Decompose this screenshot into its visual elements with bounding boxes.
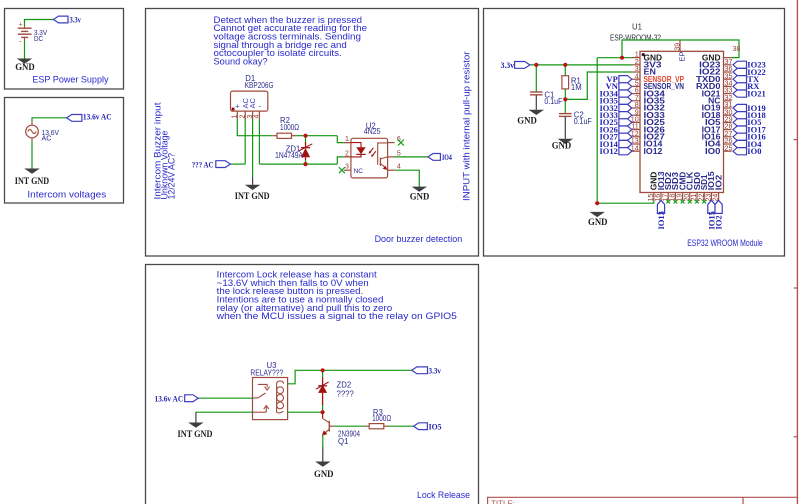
svg-text:IO4: IO4 [442,153,452,162]
svg-text:Lock Release: Lock Release [417,490,470,500]
svg-text:3.3v: 3.3v [501,61,515,70]
svg-text:4N25: 4N25 [364,127,382,136]
svg-text:3.3v: 3.3v [429,366,442,375]
svg-text:-: - [19,37,22,46]
svg-text:GND: GND [15,62,35,72]
svg-text:-: - [258,101,261,110]
svg-text:NC: NC [354,168,364,175]
svg-text:18: 18 [670,194,677,202]
svg-text:GND: GND [410,191,430,201]
svg-text:??? AC: ??? AC [192,160,214,169]
svg-text:AC: AC [248,97,257,108]
svg-text:39: 39 [675,43,682,51]
svg-text:IO12: IO12 [599,146,617,156]
svg-text:KBP206G: KBP206G [245,81,274,90]
svg-text:ESP Power Supply: ESP Power Supply [32,75,108,85]
svg-text:IO0: IO0 [705,147,721,156]
svg-text:19: 19 [677,194,684,202]
svg-text:38: 38 [733,46,741,53]
svg-text:Door buzzer detection: Door buzzer detection [375,234,463,244]
svg-text:25: 25 [725,143,733,152]
svg-text:0.1uF: 0.1uF [574,117,592,126]
svg-text:0.1uF: 0.1uF [544,97,562,106]
svg-text:IO12: IO12 [644,147,664,156]
svg-text:IO0: IO0 [747,146,761,156]
svg-text:13.6v AC: 13.6v AC [155,395,184,404]
svg-text:IO13: IO13 [656,211,666,229]
svg-text:when the MCU issues a signal t: when the MCU issues a signal to the rela… [216,311,457,321]
svg-text:1N4749A: 1N4749A [275,151,304,160]
svg-text:4: 4 [397,164,401,171]
svg-text:GND: GND [552,141,572,151]
svg-text:IO5: IO5 [429,422,442,431]
svg-text:17: 17 [662,194,669,202]
svg-text:IO2: IO2 [714,215,724,229]
svg-text:ZD2: ZD2 [337,381,352,390]
svg-text:3: 3 [345,164,349,171]
svg-text:4: 4 [254,115,261,119]
svg-text:+: + [235,101,240,110]
svg-text:3.3v: 3.3v [70,16,81,25]
svg-text:TITLE:: TITLE: [491,500,515,504]
svg-text:12/24V AC?: 12/24V AC? [167,153,177,200]
svg-text:1: 1 [345,136,349,143]
svg-text:5: 5 [397,150,401,157]
svg-text:GND: GND [314,469,334,479]
svg-text:1000Ω: 1000Ω [372,414,391,423]
svg-text:21: 21 [691,194,698,202]
svg-text:1: 1 [232,115,239,119]
svg-text:AC: AC [42,134,52,143]
svg-text:ESP32 WROOM Module: ESP32 WROOM Module [687,238,763,248]
svg-text:U1: U1 [632,23,642,32]
svg-text:2: 2 [345,150,349,157]
svg-text:13.6v AC: 13.6v AC [83,112,112,121]
svg-text:EP: EP [678,51,687,61]
svg-text:2: 2 [239,115,246,119]
svg-text:Sound okay?: Sound okay? [214,56,268,66]
svg-text:IO2: IO2 [714,174,723,190]
svg-text:RELAY???: RELAY??? [250,369,283,378]
svg-text:20: 20 [684,194,691,202]
svg-text:INT GND: INT GND [178,429,213,439]
svg-text:INPUT with internal pull-up re: INPUT with internal pull-up resistor [462,52,472,202]
svg-text:15: 15 [648,194,655,202]
svg-text:GND: GND [588,217,608,227]
svg-text:1M: 1M [571,83,582,92]
svg-text:INT GND: INT GND [235,191,270,201]
svg-text:INT GND: INT GND [15,176,50,186]
svg-text:ESP-WROOM-32: ESP-WROOM-32 [610,33,661,42]
svg-text:IO21: IO21 [747,88,765,98]
svg-text:1000Ω: 1000Ω [280,123,299,132]
svg-text:GND: GND [517,115,537,125]
svg-text:????: ???? [337,389,355,398]
svg-text:DC: DC [34,34,43,43]
svg-text:Q1: Q1 [338,437,348,446]
svg-text:+: + [18,22,22,29]
svg-text:Intercom voltages: Intercom voltages [27,190,106,200]
svg-text:22: 22 [698,194,705,202]
